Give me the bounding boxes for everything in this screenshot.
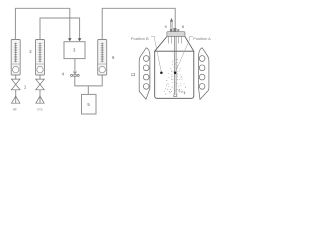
label 7 leader — [177, 90, 183, 93]
arrow into mixer 3 (right) — [78, 38, 82, 41]
leader Position A — [176, 37, 193, 72]
valve 2 and supply symbol (CO2) — [39, 75, 41, 79]
rotameter 1 body and scale — [11, 40, 20, 76]
mixer box 3 — [64, 42, 85, 59]
reactor shoulder line — [155, 50, 194, 52]
pump 4 arrow in — [73, 72, 76, 74]
cap — [167, 32, 185, 37]
wire from rotameter 6 top to reactor inlet 8 — [102, 8, 175, 39]
wire from rotameter 1 to mixer 3 — [15, 8, 69, 39]
LED lamps left — [143, 56, 149, 62]
sensor dot Position B — [160, 71, 163, 74]
valve 1 and supply symbol (Air) — [15, 75, 17, 79]
wire pump 4 down and to rotameter 6 — [75, 75, 102, 86]
LED panel right — [199, 48, 209, 100]
pump 4 right bulb — [77, 74, 79, 76]
arrow into mixer 3 (left) — [68, 38, 72, 41]
pump 4 left bulb — [71, 74, 73, 76]
LED panel left (13) — [139, 48, 150, 100]
rotameter 6 body and scale — [98, 40, 107, 76]
rotameter 2 body and scale — [36, 40, 45, 76]
wire mixer 3 to valve 4 — [74, 59, 76, 73]
spare port fitting — [177, 29, 179, 32]
sparger dip tube — [173, 36, 175, 94]
inlet fitting 8 port — [173, 28, 176, 32]
svg-text:Position A: Position A — [193, 36, 211, 41]
exhaust fitting — [170, 29, 172, 32]
leader Position B — [151, 37, 161, 72]
svg-text:CO₂: CO₂ — [37, 107, 44, 111]
exhaust arrow up — [170, 18, 173, 22]
LED lamps right — [199, 56, 205, 62]
sensor dot Position A — [174, 71, 177, 74]
sparger tip — [174, 94, 177, 96]
box 5 — [82, 94, 97, 114]
pump 4 body — [74, 74, 76, 76]
wire junction down to box 5 — [87, 86, 89, 95]
reactor vessel 7 outline — [155, 37, 194, 99]
exhaust tube 9 — [170, 21, 172, 32]
wire from rotameter 2 to mixer 3 — [40, 18, 80, 40]
short tubes through cap — [169, 36, 182, 43]
svg-text:Position B: Position B — [131, 36, 149, 41]
bubble stipple — [164, 59, 185, 94]
svg-text:13: 13 — [131, 72, 136, 77]
